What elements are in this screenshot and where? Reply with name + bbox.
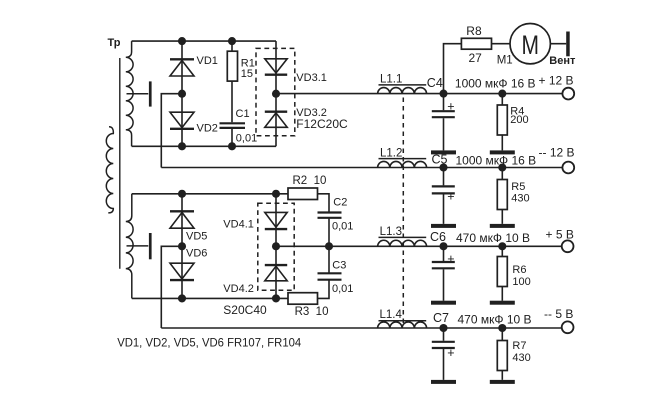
ground bar R7 <box>490 380 515 384</box>
svg-text:+: + <box>447 346 454 360</box>
node R7 <box>498 324 506 332</box>
diode VD3.2 <box>265 112 287 128</box>
resistor R6 <box>497 257 507 287</box>
resistor R8 <box>461 38 491 49</box>
svg-text:L1.1: L1.1 <box>380 74 402 86</box>
wire bridge2 bottom rail <box>132 297 288 299</box>
node bridge2 mid VD5-VD6 <box>178 242 186 250</box>
svg-text:430: 430 <box>512 352 530 364</box>
wire C7 leads <box>443 328 445 380</box>
motor M1 <box>510 24 550 64</box>
svg-text:C7: C7 <box>433 311 449 325</box>
wire bridge2 top rail <box>132 193 288 195</box>
dashed box VD3 assembly <box>256 48 295 135</box>
node bridge1 top R1 <box>228 37 236 45</box>
transformer core <box>119 58 121 269</box>
wire R7 leads <box>501 328 503 380</box>
diode VD5 <box>170 211 194 228</box>
inductor L1.2 <box>378 159 427 168</box>
diode VD3.1 <box>265 59 287 75</box>
resistor R2 <box>288 188 318 200</box>
wire R2 to C2 <box>318 194 330 213</box>
output terminal +5V <box>562 240 574 252</box>
dashed box VD4 assembly <box>258 203 294 290</box>
svg-text:+: + <box>447 100 454 114</box>
svg-text:L1.4: L1.4 <box>380 309 403 321</box>
wire R6 leads <box>501 246 503 300</box>
svg-text:470 мкФ 10 В: 470 мкФ 10 В <box>456 231 530 245</box>
svg-text:M1: M1 <box>497 55 513 67</box>
wire -5V rail <box>161 327 562 329</box>
transformer secondary winding 2 <box>126 194 133 299</box>
svg-text:C4: C4 <box>427 76 443 90</box>
svg-text:+ 12 В: + 12 В <box>539 74 574 88</box>
wire VD5-VD6 column <box>181 194 183 299</box>
svg-text:VD3.1: VD3.1 <box>296 72 327 84</box>
capacitor C5 <box>432 186 455 193</box>
svg-text:R2 10: R2 10 <box>293 175 327 187</box>
svg-text:VD2: VD2 <box>197 123 218 135</box>
wire C3 to R3 <box>318 280 330 299</box>
wire +12V rail <box>276 93 562 95</box>
svg-text:-- 12 В: -- 12 В <box>539 146 575 160</box>
wire VD1-VD2 column <box>181 41 183 146</box>
resistor R3 <box>288 293 318 305</box>
node bridge2 top VD4 <box>272 190 280 198</box>
svg-text:VD1, VD2, VD5, VD6 FR107, FR10: VD1, VD2, VD5, VD6 FR107, FR104 <box>117 335 301 349</box>
node VD4 mid <box>272 242 280 250</box>
svg-text:S20C40: S20C40 <box>223 303 267 317</box>
wire R8 branch <box>444 44 567 94</box>
capacitor C2 <box>318 213 342 218</box>
wire C5 leads <box>443 168 445 224</box>
svg-text:200: 200 <box>510 114 528 126</box>
wire C6 leads <box>443 246 445 300</box>
diode VD6 <box>170 263 194 280</box>
svg-text:R5: R5 <box>511 181 525 193</box>
wire +5V rail <box>276 245 562 247</box>
resistor R5 <box>497 180 507 210</box>
svg-text:R3 10: R3 10 <box>295 306 329 318</box>
svg-text:F12C20C: F12C20C <box>296 117 348 131</box>
svg-text:100: 100 <box>512 276 530 288</box>
capacitor C4 <box>432 111 455 117</box>
inductor L1.3 <box>378 237 427 246</box>
wire VD3 column <box>275 41 277 146</box>
ground bar C7 <box>431 380 456 384</box>
resistor R1 <box>227 51 237 81</box>
secondary 2 center tap <box>127 245 149 247</box>
wire R4 leads <box>501 94 503 151</box>
svg-text:R6: R6 <box>512 264 526 276</box>
output terminal -5V <box>562 321 574 333</box>
ground bar C6 <box>431 301 456 305</box>
node bridge1 bottom C1 <box>228 142 236 150</box>
resistor R7 <box>497 341 507 371</box>
svg-text:C3: C3 <box>332 259 346 271</box>
svg-text:VD4.2: VD4.2 <box>223 283 254 295</box>
svg-text:+: + <box>447 189 454 203</box>
node R6 <box>498 242 506 250</box>
svg-text:+ 5 В: + 5 В <box>546 227 574 241</box>
wire -12V rail <box>161 167 562 169</box>
fan blade bar <box>566 32 570 57</box>
svg-text:Вент: Вент <box>549 55 576 67</box>
svg-text:VD4.1: VD4.1 <box>223 218 254 230</box>
svg-text:0,01: 0,01 <box>332 220 353 232</box>
svg-text:-- 5 В: -- 5 В <box>544 307 573 321</box>
capacitor C3 <box>318 273 342 279</box>
node VD3 mid <box>272 90 280 98</box>
svg-text:C6: C6 <box>430 230 446 244</box>
wire center tap1 to -12V <box>161 94 182 168</box>
output terminal -12V <box>562 162 574 174</box>
svg-text:VD1: VD1 <box>197 55 218 67</box>
output terminal +12V <box>562 88 574 100</box>
ground bar C5 <box>431 224 456 228</box>
svg-text:Тр: Тр <box>108 37 121 49</box>
inductor L1.4 <box>378 321 427 328</box>
node bridge1 bottom VD2 <box>178 142 186 150</box>
node R4 <box>498 90 506 98</box>
diode VD4.2 <box>265 265 287 281</box>
svg-text:0,01: 0,01 <box>236 133 257 145</box>
svg-text:R8: R8 <box>466 24 482 38</box>
diode VD1 <box>170 59 194 76</box>
choke common core dashed line <box>402 98 404 325</box>
wire VD4 column <box>275 194 277 299</box>
wire center tap2 to -5V <box>161 246 182 328</box>
svg-text:15: 15 <box>241 68 253 80</box>
svg-text:M: M <box>521 30 539 60</box>
resistor R4 <box>497 105 507 135</box>
ground bar C4 <box>431 150 456 154</box>
svg-text:L1.2: L1.2 <box>380 147 402 159</box>
node R5 <box>498 163 506 171</box>
transformer secondary winding 1 <box>126 41 133 146</box>
node bridge1 top VD1 <box>178 37 186 45</box>
node bridge2 bottom VD6 <box>178 294 186 302</box>
svg-text:0,01: 0,01 <box>332 283 353 295</box>
svg-text:470 мкФ 10 В: 470 мкФ 10 В <box>458 313 532 327</box>
ground bar R6 <box>490 301 515 305</box>
svg-text:430: 430 <box>511 193 529 205</box>
node C4 <box>439 90 447 98</box>
capacitor C6 <box>432 262 455 268</box>
inductor L1.1 <box>378 85 427 94</box>
svg-text:1000 мкФ 16 В: 1000 мкФ 16 В <box>456 153 537 167</box>
node C7 <box>439 324 447 332</box>
diode VD4.1 <box>265 212 287 229</box>
node C2-C3 <box>325 242 333 250</box>
wire bridge1 top rail <box>132 40 276 42</box>
wire R1-C1 column <box>231 41 233 146</box>
ground bar R4 <box>490 150 515 154</box>
svg-text:VD6: VD6 <box>186 248 207 260</box>
wire R5 leads <box>501 168 503 224</box>
node bridge2 bottom VD4 <box>272 294 280 302</box>
wire C4 leads <box>443 94 445 151</box>
svg-text:R7: R7 <box>512 340 526 352</box>
svg-text:L1.3: L1.3 <box>380 226 402 238</box>
svg-text:C1: C1 <box>236 108 250 120</box>
node bridge2 top VD5 <box>178 190 186 198</box>
svg-text:C2: C2 <box>333 197 347 209</box>
svg-text:27: 27 <box>469 51 483 65</box>
svg-text:+: + <box>447 252 454 266</box>
transformer primary winding <box>106 127 113 213</box>
wire bridge1 bottom rail <box>132 145 276 147</box>
capacitor C1 <box>220 123 246 128</box>
capacitor C7 <box>432 342 455 348</box>
svg-text:VD5: VD5 <box>186 231 207 243</box>
node bridge1 mid VD1-VD2 <box>178 90 186 98</box>
svg-text:1000 мкФ 16 В: 1000 мкФ 16 В <box>455 77 536 91</box>
node C5 <box>439 163 447 171</box>
ground bar R5 <box>490 224 515 228</box>
wire C2-C3 column <box>328 218 330 273</box>
secondary 1 center tap <box>127 93 149 95</box>
diode VD2 <box>170 112 194 129</box>
node C6 <box>439 242 447 250</box>
